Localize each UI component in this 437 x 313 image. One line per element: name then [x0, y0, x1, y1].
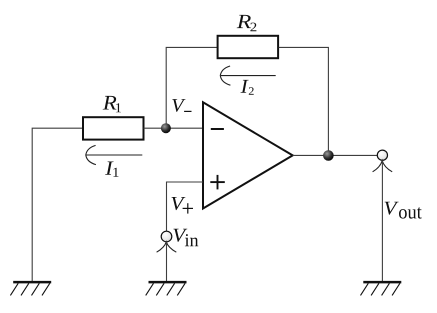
label R2 [237, 15, 251, 28]
label V+ [172, 197, 186, 210]
current arrow I2 [220, 66, 275, 85]
wire [167, 182, 204, 231]
op-amp inverting input marker [211, 128, 224, 130]
wire [166, 242, 168, 281]
label V- [172, 99, 185, 112]
terminal Vin [157, 231, 177, 252]
wire [32, 128, 82, 281]
wire [381, 160, 383, 281]
current arrow I1 [86, 145, 143, 164]
label Vin [173, 229, 187, 242]
wire [166, 47, 217, 128]
resistor R2 [218, 36, 279, 58]
node output [323, 150, 334, 161]
label Vout [385, 202, 399, 215]
op-amp non-inverting input marker [210, 181, 225, 183]
ground [10, 282, 51, 295]
ground [361, 282, 402, 295]
resistor R1 [83, 117, 144, 139]
wire [293, 154, 378, 156]
label R1 [103, 96, 117, 110]
label I2 [241, 80, 249, 93]
label I1 [105, 162, 114, 175]
node V- [161, 123, 171, 133]
ground [146, 282, 187, 295]
wire [144, 127, 204, 129]
wire [279, 47, 329, 155]
terminal Vout [373, 150, 393, 172]
op-amp U1 [203, 102, 293, 208]
